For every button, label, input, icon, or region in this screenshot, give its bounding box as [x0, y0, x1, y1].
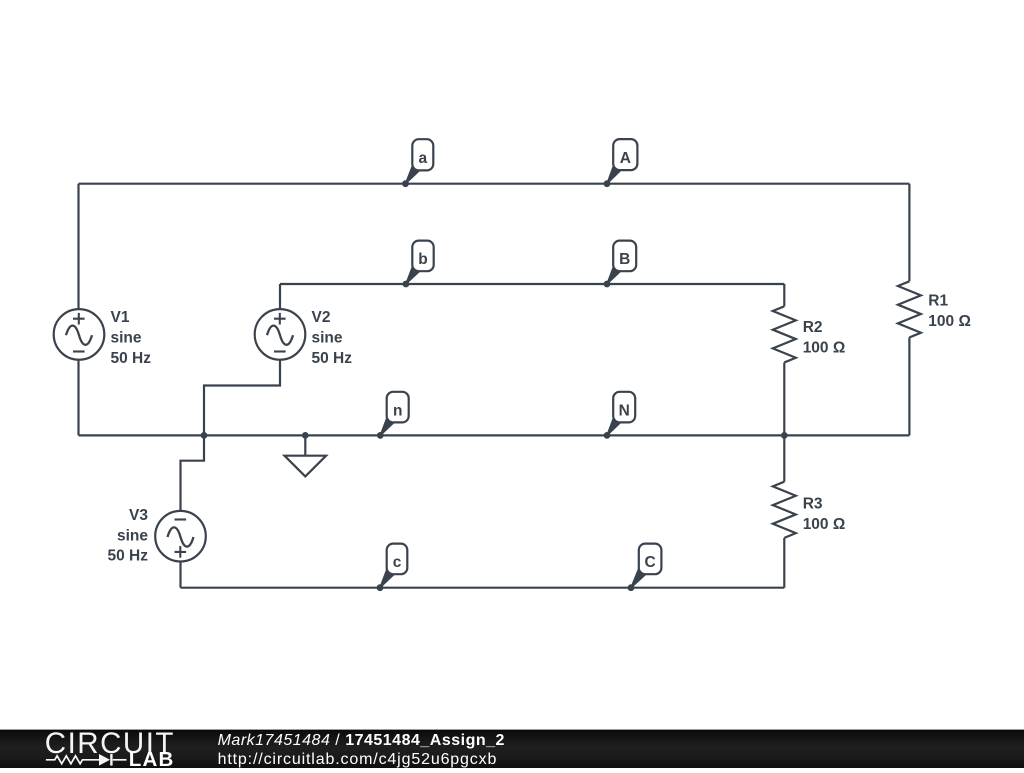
svg-text:B: B — [619, 251, 630, 268]
junction node N dot — [604, 432, 611, 439]
ground stub wire — [304, 435, 306, 455]
svg-text:http://circuitlab.com/c4jg52u6: http://circuitlab.com/c4jg52u6pgcxb — [218, 751, 498, 768]
svg-text:N: N — [619, 402, 630, 419]
wire top rail net a-A — [79, 183, 910, 185]
footer logo resistor-diode glyph — [46, 756, 127, 764]
wire V1 bottom lead — [77, 360, 79, 436]
svg-text:sine: sine — [312, 330, 343, 347]
svg-text:V3: V3 — [129, 507, 148, 524]
junction node C dot — [628, 584, 635, 591]
wire right rail to R1 — [908, 184, 910, 282]
resistor R2 body — [773, 306, 796, 362]
wire V2 bottom jog to neutral — [204, 360, 280, 436]
junction node c dot — [377, 584, 384, 591]
resistor R3 body — [773, 482, 796, 538]
net flag B — [607, 241, 636, 284]
junction V2/V3 path dot — [201, 432, 208, 439]
wire R3 top lead — [783, 435, 785, 481]
net flag A — [607, 139, 637, 184]
voltage source V3 symbol (inverted) — [155, 511, 206, 562]
wire b rail net b-B — [280, 283, 784, 285]
svg-text:b: b — [418, 251, 427, 268]
svg-text:R2: R2 — [803, 319, 823, 336]
svg-text:A: A — [620, 150, 631, 167]
svg-text:50 Hz: 50 Hz — [108, 548, 149, 565]
junction ground dot — [302, 432, 309, 439]
net flag n — [380, 392, 408, 436]
wire V1 top lead — [77, 184, 79, 310]
svg-text:V2: V2 — [312, 309, 331, 326]
wire V3 bottom lead — [179, 562, 181, 588]
svg-text:V1: V1 — [111, 309, 130, 326]
svg-text:100 Ω: 100 Ω — [803, 516, 846, 533]
svg-text:C: C — [644, 554, 655, 571]
net flag c — [380, 544, 407, 588]
svg-text:a: a — [418, 150, 427, 167]
ground symbol — [285, 456, 327, 477]
net flag N — [607, 392, 635, 436]
wire V2 top lead — [279, 284, 281, 309]
svg-text:R1: R1 — [928, 293, 948, 310]
wire neutral rail net n-N — [79, 434, 910, 436]
net flag a — [406, 139, 434, 184]
voltage source V2 symbol — [255, 309, 306, 360]
net flag b — [406, 241, 434, 284]
junction node B dot — [604, 281, 611, 288]
svg-text:n: n — [393, 402, 402, 419]
svg-text:c: c — [393, 554, 402, 571]
svg-text:50 Hz: 50 Hz — [111, 350, 152, 367]
wire R1 bottom lead — [908, 338, 910, 436]
wire c rail net c-C — [181, 587, 785, 589]
svg-text:100 Ω: 100 Ω — [928, 313, 971, 330]
wire R2 top lead — [783, 284, 785, 306]
junction R2/R3 dot — [781, 432, 788, 439]
wire R2 bottom lead — [783, 363, 785, 436]
junction node a dot — [402, 180, 409, 187]
svg-text:Mark17451484 / 17451484_Assign: Mark17451484 / 17451484_Assign_2 — [218, 732, 505, 749]
voltage source V1 symbol — [54, 309, 105, 360]
junction node n dot — [377, 432, 384, 439]
svg-text:R3: R3 — [803, 496, 823, 513]
junction node A dot — [604, 180, 611, 187]
svg-text:100 Ω: 100 Ω — [803, 339, 846, 356]
wire V3 branch jog — [181, 435, 205, 511]
net flag C — [631, 544, 661, 588]
svg-text:sine: sine — [117, 527, 148, 544]
junction node b dot — [403, 281, 410, 288]
svg-text:LAB: LAB — [129, 748, 175, 768]
footer bar — [0, 730, 1024, 768]
svg-text:sine: sine — [111, 330, 142, 347]
svg-text:50 Hz: 50 Hz — [312, 350, 353, 367]
wire R3 bottom lead — [783, 538, 785, 588]
resistor R1 body — [898, 281, 921, 337]
